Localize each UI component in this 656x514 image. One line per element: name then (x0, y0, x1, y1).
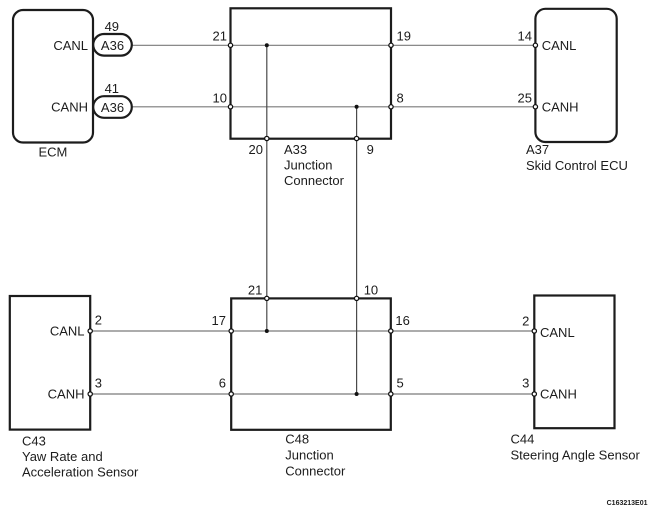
junction dot CANH at A33 (355, 105, 359, 109)
svg-text:41: 41 (105, 81, 119, 96)
svg-text:Steering Angle Sensor: Steering Angle Sensor (511, 447, 641, 462)
steering angle sensor C44 box (534, 296, 614, 429)
svg-text:CANH: CANH (542, 100, 579, 115)
svg-text:21: 21 (248, 283, 262, 298)
svg-text:Skid Control ECU: Skid Control ECU (526, 158, 628, 173)
svg-text:CANL: CANL (50, 324, 85, 339)
junction connector C48 box (231, 298, 391, 429)
pin circle 2 (C43) (88, 329, 92, 333)
C44 name (511, 431, 641, 462)
svg-text:21: 21 (213, 29, 227, 44)
connector A36 oval pin 41 (93, 96, 132, 118)
svg-text:20: 20 (249, 142, 263, 157)
junction dot CANL at A33 (265, 43, 269, 47)
svg-text:CANL: CANL (540, 325, 575, 340)
A37 name (526, 142, 628, 173)
svg-text:2: 2 (95, 313, 102, 328)
wire CANL row top: A36 oval to A37 (130, 44, 537, 46)
svg-text:C44: C44 (511, 431, 535, 446)
svg-text:Junction: Junction (285, 448, 333, 463)
svg-text:A36: A36 (101, 100, 124, 115)
wire CANL row bottom: C43 to C44 (89, 330, 535, 332)
ECM box (13, 10, 93, 143)
C43 name (22, 434, 139, 480)
svg-text:3: 3 (522, 375, 529, 390)
svg-text:A33: A33 (284, 142, 307, 157)
skid control ECU A37 box (535, 9, 616, 142)
yaw rate sensor C43 box (10, 296, 90, 430)
svg-text:CANL: CANL (53, 38, 88, 53)
svg-text:C163213E01: C163213E01 (607, 500, 648, 507)
pin circle 21 (C48) (265, 296, 269, 300)
junction dot CANL at C48 (265, 329, 269, 333)
svg-text:CANH: CANH (51, 100, 88, 115)
pin circle 21 (A33) (228, 43, 232, 47)
svg-text:Yaw Rate and: Yaw Rate and (22, 449, 103, 464)
svg-text:16: 16 (395, 313, 409, 328)
svg-text:Connector: Connector (285, 464, 346, 479)
A33 name (284, 142, 345, 188)
C48 name (285, 432, 346, 479)
pin circle 3 (C43) (88, 392, 92, 396)
svg-text:A36: A36 (101, 38, 124, 53)
svg-text:17: 17 (212, 313, 226, 328)
pin circle 2 (C44) (532, 329, 536, 333)
svg-text:C48: C48 (285, 432, 309, 447)
svg-text:6: 6 (219, 376, 226, 391)
pin circle 5 (C48) (389, 392, 393, 396)
svg-text:Acceleration Sensor: Acceleration Sensor (22, 464, 139, 479)
svg-text:C43: C43 (22, 434, 46, 449)
pin circle 3 (C44) (532, 392, 536, 396)
svg-text:14: 14 (518, 29, 532, 44)
pin circle 8 (A33) (389, 105, 393, 109)
pin circle 6 (C48) (229, 392, 233, 396)
junction dot CANH at C48 (355, 392, 359, 396)
svg-text:3: 3 (95, 375, 102, 390)
pin circle 10 (C48) (354, 296, 358, 300)
svg-text:19: 19 (397, 29, 411, 44)
svg-text:8: 8 (397, 90, 404, 105)
pin circle 9 (A33) (354, 136, 358, 140)
svg-text:5: 5 (397, 376, 404, 391)
pin circle 16 (C48) (389, 329, 393, 333)
pin circle 19 (A33) (389, 43, 393, 47)
svg-text:2: 2 (522, 314, 529, 329)
pin circle 17 (C48) (229, 329, 233, 333)
wire vertical branch pin9/10 (356, 107, 358, 394)
svg-text:25: 25 (518, 90, 532, 105)
svg-text:A37: A37 (526, 142, 549, 157)
wire vertical branch pin20/21 (266, 45, 268, 331)
svg-text:49: 49 (105, 19, 119, 34)
svg-text:Junction: Junction (284, 158, 332, 173)
pin circle 10 (A33) (228, 105, 232, 109)
pin circle 14 (A37) (533, 43, 537, 47)
svg-text:10: 10 (213, 90, 227, 105)
svg-text:CANH: CANH (48, 387, 85, 402)
wire CANH row top: A36 oval to A37 (130, 106, 537, 108)
wire CANH row bottom: C43 to C44 (89, 393, 535, 395)
pin circle 25 (A37) (533, 105, 537, 109)
pin circle 20 (A33) (265, 136, 269, 140)
svg-text:ECM: ECM (39, 145, 68, 160)
svg-text:9: 9 (367, 142, 374, 157)
svg-text:10: 10 (364, 283, 378, 298)
junction connector A33 box (231, 8, 392, 138)
svg-text:CANL: CANL (542, 38, 577, 53)
svg-text:Connector: Connector (284, 173, 345, 188)
svg-text:CANH: CANH (540, 387, 577, 402)
connector A36 oval pin 49 (93, 34, 132, 56)
